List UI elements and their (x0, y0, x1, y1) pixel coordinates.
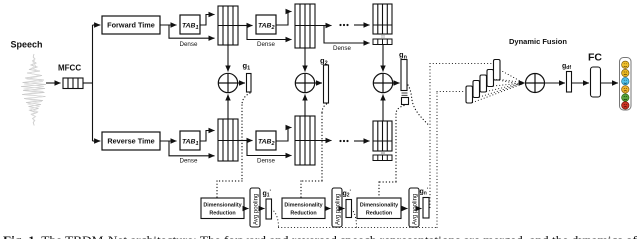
MFCC feature block (63, 78, 83, 89)
svg-text:gn: gn (399, 50, 408, 61)
svg-text:Reduction: Reduction (290, 211, 316, 217)
wire dense branch stage 2 forward (247, 26, 292, 40)
svg-text:Dimensionality: Dimensionality (284, 203, 322, 209)
svg-text:Dense: Dense (180, 158, 198, 165)
svg-text:Dense: Dense (257, 158, 275, 165)
emoji orange (622, 86, 629, 93)
wire Forward Time to TAB1 (160, 24, 177, 26)
emoji green (622, 94, 629, 101)
wire TAB2 reverse to stack2 reverse (276, 128, 292, 142)
wire dense branch stage 1 forward (169, 25, 215, 38)
dotted wire gn to dimensionality reduction 3 (379, 106, 404, 198)
svg-text:Forward Time: Forward Time (107, 21, 155, 30)
svg-text:g2': g2' (343, 190, 351, 199)
embedding gdf (567, 72, 572, 93)
svg-text:Dimensionality: Dimensionality (203, 203, 241, 209)
svg-text:Reverse Time: Reverse Time (107, 137, 154, 146)
dotted wire gn to dynamic fusion vertical (408, 85, 430, 126)
wire ellipsis to stack n forward (354, 24, 370, 26)
svg-text:Speech: Speech (11, 40, 43, 50)
embedding g2 prime (346, 200, 352, 218)
ellipsis forward chain (339, 24, 348, 26)
svg-text:Reduction: Reduction (366, 211, 392, 217)
tiny continuation marks stack n forward (381, 36, 385, 37)
block dimensionality reduction 2 (282, 198, 325, 219)
dense bar stack n reverse (373, 155, 392, 161)
speech waveform icon (21, 54, 46, 126)
wire stack n reverse up to adder 3 (382, 95, 384, 122)
wire fusion adder to gdf (545, 82, 566, 84)
svg-text:Fig. 1. The TBDM-Net archite: Fig. 1. The TBDM-Net architecture: The f… (3, 233, 637, 239)
embedding gn (401, 60, 407, 91)
svg-text:Reduction: Reduction (209, 211, 235, 217)
svg-text:Dense: Dense (180, 41, 198, 48)
wire dense branch stage n forward (324, 26, 370, 44)
embedding g2 (324, 65, 329, 103)
block avg pooling 1 (250, 188, 260, 227)
dotted wire g1 prime to bus (272, 209, 279, 228)
dense bar stack n forward (373, 39, 392, 45)
dotted bus B to fusion stack bottom (437, 91, 465, 93)
svg-text:Avg pooling: Avg pooling (254, 194, 260, 225)
dynamic fusion embedding stack (466, 60, 500, 104)
dotted wire g2 to dimensionality reduction 2 (301, 104, 327, 198)
svg-text:g1': g1' (263, 190, 271, 199)
output emotion panel (620, 58, 632, 111)
emoji blue (622, 78, 629, 85)
block dimensionality reduction 3 (357, 198, 401, 219)
wire Reverse Time to TAB1 reverse (160, 140, 177, 142)
wire dimred1 to avgpool1 (244, 208, 249, 210)
svg-text:Dense: Dense (257, 41, 275, 48)
svg-text:g1: g1 (243, 61, 251, 72)
svg-text:Avg pooling: Avg pooling (413, 194, 419, 225)
block avg pooling 3 (409, 188, 419, 227)
embedding g1 (247, 74, 252, 93)
wire stack2 forward down to adder 2 (304, 48, 306, 72)
wire stack2 reverse up to adder 2 (304, 95, 306, 117)
wire avgpool2 to g2p (342, 208, 345, 210)
dotted bus vertical B (436, 92, 438, 228)
dotted A to fusion stack top (430, 63, 492, 65)
wire stack n forward down to adder 3 (382, 45, 384, 72)
ellipsis reverse chain (339, 140, 348, 142)
junction vertical wire (92, 25, 94, 141)
wire gdf to FC (572, 82, 590, 84)
dotted wire g1 to dimensionality reduction 1 (217, 93, 250, 198)
wire dimred3 to avgpool3 (401, 208, 408, 210)
wire adder1 to g1 (238, 82, 245, 84)
wire dimred2 to avgpool2 (325, 208, 331, 210)
embedding g1 prime (266, 199, 272, 219)
wire stack2 reverse to ellipsis (315, 140, 332, 142)
embedding gn prime (423, 198, 429, 219)
svg-text:FC: FC (588, 52, 602, 64)
block dimensionality reduction 1 (201, 198, 244, 219)
svg-text:Dynamic Fusion: Dynamic Fusion (509, 37, 567, 46)
emoji red (622, 102, 629, 109)
svg-text:gn': gn' (420, 188, 429, 197)
wire ellipsis to stack n reverse (354, 140, 370, 142)
adder circle 1 (218, 73, 237, 92)
tiny continuation marks stack n reverse (381, 152, 385, 153)
dotted vertical A gn prime up (429, 64, 431, 208)
emoji yellow 2 (622, 69, 629, 76)
feature stack n forward (373, 4, 392, 34)
svg-text:MFCC: MFCC (58, 64, 81, 73)
continuation marks gn (402, 93, 408, 95)
feature stack 1 reverse (218, 119, 238, 161)
block TAB2 reverse (256, 131, 276, 150)
svg-text:Dense: Dense (333, 45, 351, 52)
wire stack2 to ellipsis forward (315, 25, 332, 27)
block FC (591, 67, 601, 97)
embedding gn tail square (402, 98, 409, 105)
wire TAB2 to stack2 forward (276, 12, 292, 26)
wire stack1 forward down to adder 1 (227, 45, 229, 72)
dotted fan to fusion adder (473, 70, 523, 103)
wire avgpool1 to g1p (260, 208, 265, 210)
adder circle 2 (295, 73, 314, 92)
feature stack 1 forward (218, 6, 238, 45)
wire dense branch stage1 reverse (169, 141, 215, 156)
wire waveform to MFCC (46, 82, 61, 84)
wire adder3 to gn (393, 82, 400, 84)
wire junction to Forward Time (93, 24, 101, 26)
wire FC to output (601, 82, 619, 84)
arrowhead into fusion adder (519, 80, 525, 85)
wire stack1 reverse up to adder 1 (227, 95, 229, 120)
dotted bus bottom (279, 227, 438, 229)
wire junction to Reverse Time (93, 140, 101, 142)
svg-text:Dimensionality: Dimensionality (360, 203, 398, 209)
block TAB1 forward (180, 15, 200, 34)
dotted wire gn prime right (429, 207, 430, 209)
feature stack 2 reverse (295, 116, 315, 165)
feature stack 2 forward (295, 4, 315, 48)
wire TAB1 reverse to stack1 reverse (200, 131, 215, 142)
dotted wire g2 prime to bus (352, 209, 357, 228)
wire adder2 to g2 (315, 82, 322, 84)
wire avgpool3 to gnp (419, 208, 422, 210)
svg-text:gdf: gdf (562, 63, 571, 71)
svg-text:Avg pooling: Avg pooling (336, 194, 342, 225)
wire dense branch stage2 reverse (247, 141, 292, 156)
block Forward Time (102, 16, 160, 34)
wire stack1 to TAB2 forward (238, 25, 253, 27)
feature stack n reverse (373, 121, 392, 151)
block avg pooling 2 (332, 188, 342, 227)
adder circle 3 (373, 73, 392, 92)
emoji yellow 1 (622, 61, 629, 68)
block TAB1 reverse (180, 131, 200, 150)
fusion adder circle (526, 74, 545, 93)
wire TAB1 to stack1 forward (200, 15, 215, 26)
wire stack1 reverse to TAB2 reverse (238, 140, 253, 142)
wire MFCC to junction (83, 82, 93, 84)
block TAB2 forward (256, 15, 276, 34)
block Reverse Time (102, 132, 160, 150)
